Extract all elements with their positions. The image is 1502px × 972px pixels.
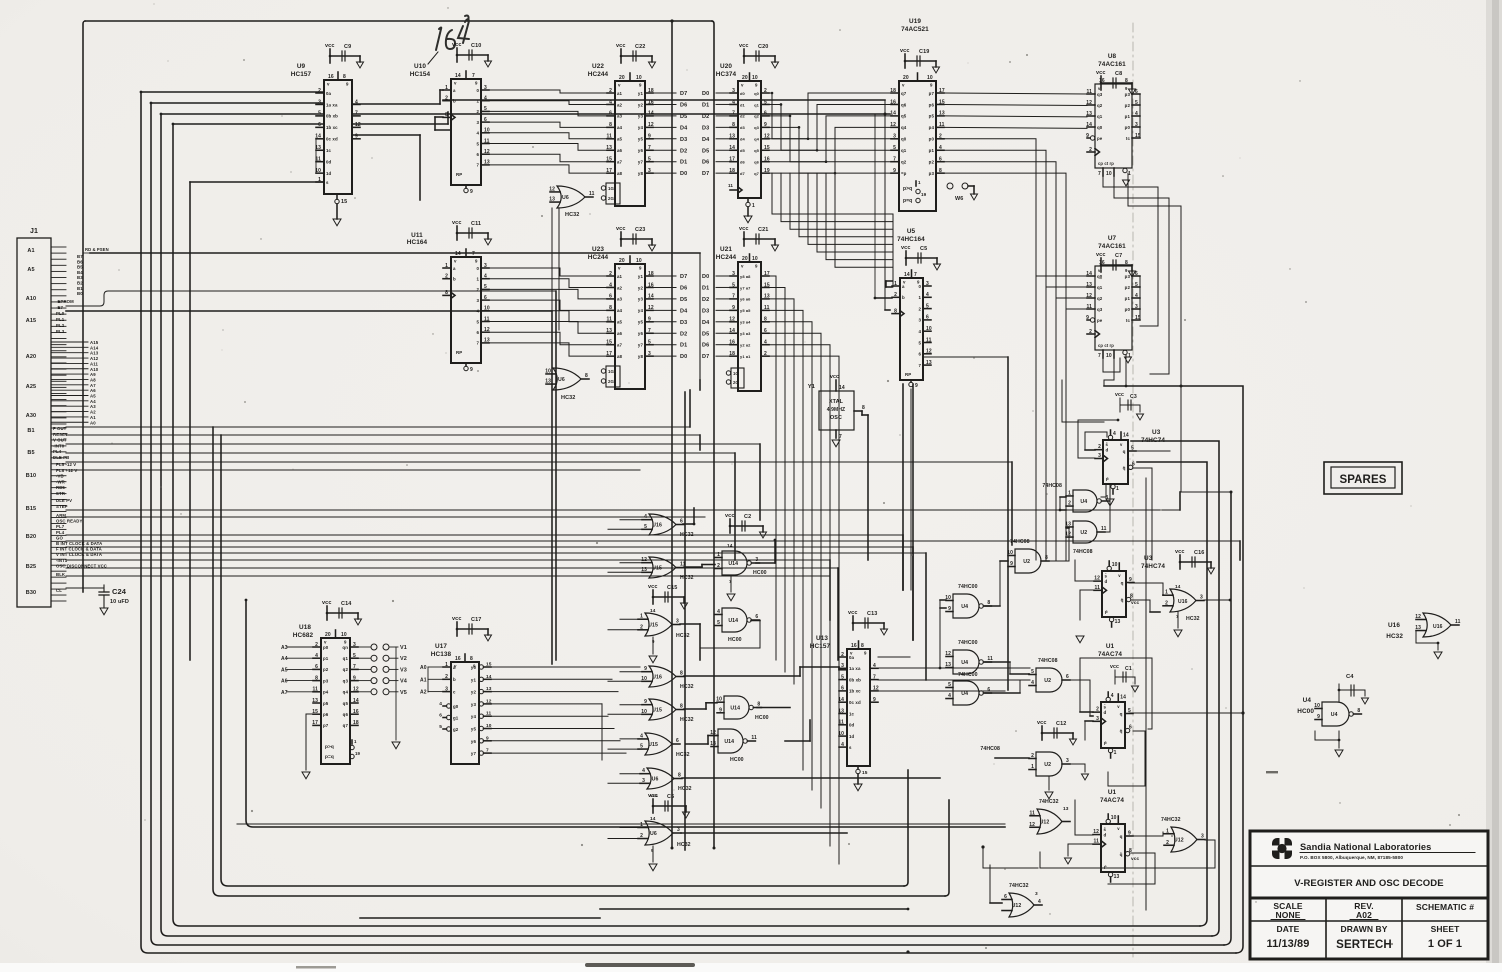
svg-text:U15: U15 (652, 565, 662, 571)
svg-text:8: 8 (680, 671, 683, 677)
svg-text:A10: A10 (26, 296, 36, 302)
svg-text:U9: U9 (297, 63, 306, 70)
svg-text:B0: B0 (77, 291, 83, 296)
svg-text:A13: A13 (90, 351, 99, 356)
IC U23 HC244 (588, 226, 656, 389)
svg-text:A25: A25 (26, 384, 36, 390)
svg-text:U16: U16 (652, 674, 662, 680)
svg-text:U2: U2 (1044, 762, 1051, 768)
svg-text:p1: p1 (1125, 114, 1131, 119)
svg-text:11: 11 (926, 337, 932, 343)
svg-text:vcc: vcc (452, 220, 461, 226)
svg-text:BLK: BLK (56, 572, 66, 577)
wire U10 to U22 (489, 90, 607, 173)
svg-text:2: 2 (1089, 147, 1092, 153)
svg-text:6: 6 (1129, 725, 1132, 731)
svg-text:HC32: HC32 (680, 684, 694, 690)
svg-text:q7: q7 (343, 723, 349, 728)
svg-text:3: 3 (648, 351, 651, 357)
wire loop L5 (213, 427, 949, 896)
svg-text:D6: D6 (702, 160, 709, 166)
svg-text:10: 10 (341, 632, 347, 638)
IC U9 HC157 (291, 43, 364, 226)
svg-text:RP: RP (905, 372, 911, 377)
svg-text:13: 13 (1114, 874, 1120, 880)
svg-text:0b xb: 0b xb (326, 114, 338, 119)
svg-text:vcc: vcc (322, 600, 331, 606)
svg-text:y2: y2 (471, 690, 477, 695)
svg-text:HC32: HC32 (680, 575, 694, 581)
svg-text:1: 1 (1165, 590, 1168, 596)
svg-text:D5: D5 (680, 297, 687, 303)
wire bottom extra1 (600, 847, 910, 954)
svg-text:vcc: vcc (1115, 392, 1124, 398)
svg-text:U17: U17 (435, 643, 447, 650)
svg-text:p2: p2 (1125, 285, 1131, 290)
svg-text:V OUT: V OUT (53, 438, 67, 443)
svg-text:9: 9 (644, 666, 647, 672)
svg-text:74HC08: 74HC08 (1038, 658, 1058, 664)
svg-text:20: 20 (742, 75, 748, 81)
svg-text:3: 3 (755, 557, 758, 563)
svg-text:A5: A5 (90, 394, 96, 399)
svg-text:8: 8 (445, 290, 448, 296)
svg-text:D5: D5 (702, 331, 709, 337)
svg-text:4: 4 (1031, 680, 1034, 686)
svg-text:C3: C3 (1130, 394, 1137, 400)
svg-text:7: 7 (353, 664, 356, 670)
svg-text:6: 6 (764, 328, 767, 334)
svg-text:C24: C24 (112, 587, 127, 596)
svg-text:1b xc: 1b xc (326, 125, 338, 130)
svg-text:8: 8 (680, 704, 683, 710)
wire U18 feeds (190, 660, 556, 700)
svg-text:10: 10 (545, 368, 551, 374)
gate U12 74HC32 a (1029, 799, 1070, 834)
svg-text:p5: p5 (323, 701, 329, 706)
svg-text:y8 a8: y8 a8 (740, 274, 751, 279)
wire U22 to U20 (653, 93, 730, 173)
svg-text:vcc: vcc (452, 42, 461, 48)
svg-text:11/13/89: 11/13/89 (1266, 938, 1309, 950)
svg-text:HC32: HC32 (1386, 633, 1403, 640)
svg-text:74AC161: 74AC161 (1098, 61, 1126, 68)
svg-text:-VB: -VB (56, 474, 64, 479)
wire loop L7 (245, 599, 1005, 827)
svg-text:y7 a7: y7 a7 (740, 285, 751, 290)
svg-text:10 uFD: 10 uFD (110, 599, 129, 605)
svg-text:HC32: HC32 (565, 212, 579, 218)
svg-text:1a xa: 1a xa (849, 666, 861, 671)
svg-text:C12: C12 (1056, 721, 1066, 727)
svg-text:11: 11 (751, 735, 757, 741)
svg-text:HC32: HC32 (561, 395, 575, 401)
svg-text:B30: B30 (26, 590, 36, 596)
svg-text:8: 8 (1130, 594, 1133, 600)
svg-text:D6: D6 (702, 343, 709, 349)
gate U16 HC32 a (642, 514, 694, 538)
svg-text:U16: U16 (1178, 599, 1188, 605)
wire U12 area (448, 828, 1060, 930)
svg-text:HC00: HC00 (1297, 708, 1314, 715)
svg-text:4: 4 (644, 514, 647, 520)
svg-text:p5: p5 (929, 114, 935, 119)
svg-text:13: 13 (545, 379, 551, 385)
svg-text:74HC00: 74HC00 (958, 672, 978, 678)
svg-text:J1: J1 (30, 228, 38, 235)
svg-text:RD5: RD5 (56, 485, 65, 490)
svg-text:U12: U12 (1040, 819, 1050, 825)
gate U14 HC00 b (715, 608, 759, 643)
svg-text:HC244: HC244 (588, 254, 609, 261)
svg-text:-E7: -E7 (56, 305, 63, 310)
svg-text:11: 11 (728, 183, 733, 188)
svg-text:C2: C2 (744, 514, 751, 520)
svg-text:q6: q6 (901, 102, 907, 107)
svg-text:1: 1 (445, 85, 448, 91)
svg-text:4: 4 (609, 282, 612, 288)
svg-text:16: 16 (455, 656, 461, 662)
svg-text:RP: RP (456, 350, 462, 355)
svg-text:U6: U6 (650, 831, 657, 837)
svg-text:6: 6 (484, 295, 487, 301)
svg-text:14: 14 (1120, 695, 1126, 701)
svg-text:vcc: vcc (1175, 549, 1184, 555)
wire loop L6 (221, 435, 908, 886)
svg-text:10: 10 (636, 258, 642, 264)
svg-text:8: 8 (862, 405, 865, 411)
svg-text:HC164: HC164 (407, 239, 428, 246)
svg-text:6: 6 (484, 117, 487, 123)
svg-text:HC00: HC00 (728, 637, 742, 643)
svg-text:0b xb: 0b xb (849, 677, 861, 682)
svg-text:B INT CLOCK & DATA: B INT CLOCK & DATA (56, 541, 102, 546)
svg-text:OSC READY: OSC READY (56, 519, 82, 524)
svg-text:8: 8 (987, 600, 990, 606)
svg-text:vcc: vcc (830, 374, 839, 380)
svg-text:y8: y8 (638, 171, 644, 176)
svg-text:NONE: NONE (1276, 910, 1301, 920)
gate U2 74HC08 e (1065, 521, 1106, 555)
svg-text:C1: C1 (1125, 666, 1132, 672)
svg-text:b: b (902, 295, 905, 300)
svg-text:q7: q7 (754, 171, 760, 176)
svg-text:y7: y7 (638, 343, 644, 348)
svg-text:STEP: STEP (56, 504, 68, 509)
svg-text:5: 5 (732, 282, 735, 288)
svg-text:16: 16 (328, 74, 334, 80)
svg-text:y4: y4 (638, 125, 644, 130)
svg-text:9: 9 (732, 305, 735, 311)
svg-text:q0: q0 (754, 91, 760, 96)
svg-text:4: 4 (841, 742, 844, 748)
svg-text:2G: 2G (733, 380, 739, 385)
svg-text:74AC74: 74AC74 (1098, 651, 1122, 658)
svg-text:q3: q3 (1097, 92, 1103, 97)
svg-text:vcc: vcc (1110, 664, 1119, 670)
svg-text:D3: D3 (702, 125, 709, 131)
wire U12 drop (981, 845, 1038, 868)
svg-text:8: 8 (678, 773, 681, 779)
svg-text:HC32: HC32 (677, 842, 691, 848)
svg-text:74AC74: 74AC74 (1100, 797, 1124, 804)
svg-text:6: 6 (676, 738, 679, 744)
wire gate outputs (680, 508, 940, 833)
IC U21 HC244 (716, 226, 779, 391)
svg-text:20: 20 (619, 75, 625, 81)
svg-text:4: 4 (1113, 431, 1116, 437)
svg-text:C22: C22 (635, 44, 645, 50)
svg-text:4: 4 (315, 653, 318, 659)
svg-text:C5: C5 (920, 246, 927, 252)
svg-text:9: 9 (1129, 577, 1132, 583)
svg-text:3: 3 (841, 663, 844, 669)
wire loop L2 (151, 103, 1231, 945)
svg-text:d: d (1104, 710, 1107, 715)
svg-text:8: 8 (732, 122, 735, 128)
svg-text:y2 a2: y2 a2 (740, 343, 751, 348)
svg-text:10: 10 (1007, 550, 1013, 556)
svg-text:U12: U12 (1012, 903, 1022, 909)
svg-text:HC154: HC154 (410, 71, 431, 78)
svg-text:vcc: vcc (648, 584, 657, 590)
gate U6 HC32 d (638, 793, 691, 871)
svg-text:y1: y1 (638, 274, 644, 279)
svg-text:D4: D4 (702, 320, 710, 326)
svg-text:0a: 0a (849, 655, 855, 660)
svg-text:U4: U4 (1080, 499, 1087, 505)
svg-text:3: 3 (1098, 453, 1101, 459)
svg-text:7: 7 (472, 73, 475, 79)
svg-text:q: q (1121, 581, 1124, 586)
svg-text:12: 12 (1086, 100, 1092, 106)
svg-text:2: 2 (318, 88, 321, 94)
svg-text:10: 10 (926, 326, 932, 332)
svg-text:13: 13 (1115, 619, 1121, 625)
svg-text:PL3: PL3 (56, 329, 65, 334)
svg-text:B3: B3 (77, 275, 83, 280)
svg-text:2: 2 (717, 563, 720, 569)
wire U23 to U21 (653, 276, 730, 356)
svg-text:4: 4 (1038, 899, 1041, 905)
flip-flop U3 74HC74 a (1095, 392, 1165, 506)
svg-text:U14: U14 (730, 705, 740, 711)
wire bottom extra2 (360, 917, 600, 919)
svg-text:1a xa: 1a xa (326, 102, 338, 107)
svg-text:10: 10 (752, 256, 758, 262)
jumper W6 (947, 183, 978, 202)
svg-text:A2: A2 (420, 690, 427, 696)
svg-text:SHEET: SHEET (1431, 924, 1461, 934)
svg-text:y1: y1 (471, 677, 477, 682)
connector J1 (17, 228, 66, 607)
svg-text:3: 3 (484, 263, 487, 269)
svg-text:5: 5 (484, 284, 487, 290)
gate U15 HC32 c (641, 699, 693, 723)
svg-text:U11: U11 (411, 232, 423, 239)
svg-text:DLE PV: DLE PV (56, 498, 72, 503)
svg-text:7: 7 (486, 748, 489, 754)
svg-text:vcc: vcc (325, 43, 334, 49)
svg-text:B10: B10 (26, 473, 36, 479)
wire U9 to U10 (352, 90, 890, 200)
svg-text:p=q: p=q (325, 755, 334, 760)
svg-text:Sandia National Laboratories: Sandia National Laboratories (1300, 842, 1431, 852)
svg-text:5: 5 (948, 682, 951, 688)
svg-text:0c xd: 0c xd (849, 700, 861, 705)
svg-text:B4: B4 (77, 270, 83, 275)
svg-text:16: 16 (851, 643, 857, 649)
crystal oscillator Y1 (808, 374, 865, 447)
svg-text:3: 3 (353, 642, 356, 648)
svg-text:U16: U16 (1388, 622, 1400, 629)
svg-text:q4: q4 (901, 125, 907, 130)
wire U10 clk (435, 114, 890, 310)
svg-text:8: 8 (343, 74, 346, 80)
svg-text:20: 20 (903, 75, 909, 81)
svg-text:B2: B2 (77, 281, 83, 286)
svg-text:a5: a5 (617, 320, 623, 325)
svg-text:16: 16 (353, 709, 359, 715)
svg-text:U23: U23 (592, 246, 604, 253)
svg-text:11: 11 (1094, 839, 1100, 845)
svg-text:U2: U2 (1044, 678, 1051, 684)
svg-text:y3 a3: y3 a3 (740, 331, 751, 336)
svg-text:8: 8 (315, 675, 318, 681)
svg-text:D4: D4 (702, 137, 710, 143)
svg-text:3: 3 (484, 85, 487, 91)
svg-text:U15: U15 (648, 622, 658, 628)
svg-text:10: 10 (1111, 815, 1117, 821)
svg-text:14: 14 (650, 816, 656, 822)
svg-text:q1: q1 (1097, 114, 1103, 119)
svg-text:U4: U4 (961, 604, 968, 610)
svg-text:PL4: PL4 (56, 530, 65, 535)
svg-text:19: 19 (921, 192, 927, 197)
svg-text:W6: W6 (955, 196, 963, 202)
svg-text:SERTECH: SERTECH (1336, 939, 1392, 951)
svg-text:y8: y8 (638, 354, 644, 359)
svg-text:U14: U14 (728, 561, 738, 567)
svg-text:1c: 1c (849, 711, 855, 716)
svg-text:HC32: HC32 (676, 752, 690, 758)
svg-text:1d: 1d (849, 734, 855, 739)
gate U6 HC32 top (549, 186, 594, 368)
svg-text:5: 5 (717, 620, 720, 626)
svg-text:9: 9 (948, 606, 951, 612)
svg-text:y5: y5 (471, 727, 477, 732)
svg-text:9: 9 (719, 707, 722, 713)
svg-text:p3: p3 (323, 678, 329, 683)
svg-text:6: 6 (1066, 674, 1069, 680)
spare gate U4 HC00 (1297, 674, 1368, 757)
svg-text:14: 14 (1086, 122, 1092, 128)
wire U17 outputs (491, 667, 640, 760)
svg-text:p3: p3 (929, 171, 935, 176)
svg-text:10: 10 (636, 75, 642, 81)
IC U11 HC164 (407, 220, 492, 373)
svg-text:2: 2 (1031, 753, 1034, 759)
svg-text:74HC08: 74HC08 (1042, 483, 1062, 489)
svg-text:A9: A9 (90, 372, 96, 377)
wire loop L3 (161, 114, 1219, 936)
svg-text:y6: y6 (638, 148, 644, 153)
svg-text:B6: B6 (77, 259, 83, 264)
svg-text:B1: B1 (77, 286, 83, 291)
svg-text:6: 6 (1004, 894, 1007, 900)
gate U12 74HC32 b (1002, 883, 1042, 917)
svg-text:8: 8 (1125, 260, 1128, 266)
svg-text:6: 6 (926, 315, 929, 321)
svg-text:3: 3 (1066, 758, 1069, 764)
svg-text:q6: q6 (754, 160, 760, 165)
svg-text:HC138: HC138 (431, 651, 452, 658)
svg-text:2: 2 (1096, 707, 1099, 713)
svg-text:F̄: F̄ (1104, 740, 1107, 746)
gate U16 HC32 e (1163, 549, 1215, 637)
svg-text:A11: A11 (90, 361, 98, 366)
svg-text:HC32: HC32 (678, 786, 692, 792)
svg-text:6: 6 (439, 712, 442, 718)
svg-text:10: 10 (1314, 703, 1320, 709)
gate U14 HC00 c (716, 696, 768, 721)
svg-text:HC32: HC32 (676, 633, 690, 639)
wire U4-U2 cluster (939, 484, 1110, 780)
svg-text:y3: y3 (471, 702, 477, 707)
svg-text:A0: A0 (420, 665, 427, 671)
svg-text:a1: a1 (617, 274, 623, 279)
svg-text:8: 8 (861, 643, 864, 649)
svg-text:11: 11 (1095, 585, 1101, 591)
svg-text:p6: p6 (929, 102, 935, 107)
svg-text:y7: y7 (471, 751, 477, 756)
svg-text:A15: A15 (90, 340, 99, 345)
flip-flop U1 74AC74 a (1093, 643, 1139, 758)
svg-text:PL2: PL2 (56, 323, 65, 328)
svg-text:8: 8 (1357, 708, 1360, 714)
svg-text:19: 19 (355, 751, 361, 756)
svg-text:d6: d6 (740, 160, 746, 165)
svg-text:A1: A1 (420, 677, 427, 683)
svg-text:74HC32: 74HC32 (1009, 883, 1029, 889)
svg-text:C10: C10 (471, 43, 481, 49)
svg-text:9: 9 (1086, 315, 1089, 321)
svg-text:C21: C21 (758, 227, 768, 233)
svg-text:A20: A20 (26, 354, 36, 360)
svg-text:3: 3 (1096, 716, 1099, 722)
svg-text:U6: U6 (652, 776, 659, 782)
svg-text:d5: d5 (740, 148, 746, 153)
svg-text:a8: a8 (617, 171, 623, 176)
svg-text:9: 9 (644, 699, 647, 705)
svg-text:10: 10 (1106, 171, 1112, 177)
svg-text:4: 4 (926, 292, 929, 298)
svg-text:A7: A7 (281, 690, 288, 696)
svg-text:6: 6 (1132, 461, 1135, 467)
svg-text:p0: p0 (1125, 307, 1131, 312)
svg-text:B5: B5 (27, 450, 34, 456)
svg-text:3: 3 (676, 619, 679, 625)
svg-text:C9: C9 (344, 44, 351, 50)
svg-text:1: 1 (752, 203, 755, 209)
svg-text:d4: d4 (740, 137, 746, 142)
svg-text:7: 7 (732, 294, 735, 300)
svg-text:A1: A1 (90, 415, 96, 420)
svg-text:HC157: HC157 (291, 71, 312, 78)
svg-text:g1: g1 (453, 716, 459, 721)
svg-text:3: 3 (648, 168, 651, 174)
svg-text:C20: C20 (758, 44, 768, 50)
